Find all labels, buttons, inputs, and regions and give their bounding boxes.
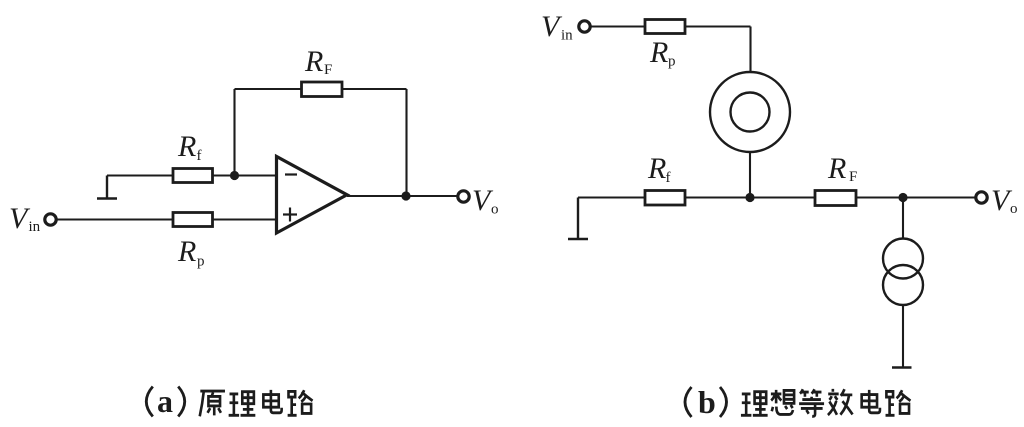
ground (b) bottom: [892, 366, 912, 368]
svg-text:R: R: [177, 235, 196, 268]
svg-text:p: p: [197, 254, 205, 270]
wire Vin to Rp: [58, 218, 174, 220]
paren (: [146, 387, 153, 417]
svg-text:R: R: [177, 130, 196, 163]
wire ground to Rf (b): [578, 196, 645, 198]
resistor Rp (a): [173, 213, 213, 227]
label Vin (b): [541, 10, 573, 44]
resistor Rf (b): [645, 191, 685, 206]
wire Vin to Rp (b): [592, 25, 646, 27]
glyph 路: [886, 390, 911, 415]
svg-text:F: F: [849, 169, 857, 185]
svg-text:in: in: [561, 28, 573, 44]
wire Rp to op-amp noninverting input: [213, 218, 277, 220]
label Rp (b): [649, 36, 676, 70]
ground (b) left: [568, 198, 588, 240]
svg-text:p: p: [668, 54, 676, 70]
nullator (ideal op-amp input element): [710, 72, 790, 152]
label Rp (a): [177, 235, 205, 270]
paren (: [685, 387, 692, 417]
label Vo (b): [991, 184, 1018, 217]
paren ): [178, 387, 185, 417]
wire Rf to inverting node: [213, 174, 277, 176]
glyph 效: [828, 389, 853, 415]
wire RF to Vo terminal (b): [856, 196, 975, 198]
wire corner down to nullator: [749, 27, 751, 73]
svg-text:R: R: [649, 36, 668, 69]
svg-text:f: f: [666, 170, 671, 186]
svg-text:f: f: [197, 148, 202, 164]
label Rf (a): [177, 130, 202, 164]
terminal Vin (a): [45, 214, 56, 225]
paren ): [720, 387, 727, 417]
svg-text:F: F: [324, 62, 332, 78]
wire ground to Rf: [107, 174, 173, 176]
label Vo (a): [472, 184, 499, 218]
label Rf (b): [647, 152, 671, 186]
ground (a): [97, 176, 117, 199]
wire feedback right vertical: [405, 89, 407, 196]
glyph 理: [229, 392, 256, 416]
svg-text:R: R: [827, 152, 846, 185]
node A junction dot (inverting input): [230, 171, 239, 180]
wire nullator to center node: [749, 152, 751, 198]
wire node to norator: [902, 198, 904, 239]
resistor Rf (a): [173, 169, 213, 183]
resistor RF (b): [815, 191, 856, 206]
terminal Vo (b): [976, 192, 987, 203]
svg-text:b: b: [698, 384, 716, 420]
wire norator to ground (b): [902, 305, 904, 367]
resistor RF (a): [302, 82, 343, 97]
terminal Vin (b): [579, 21, 590, 32]
glyph 等: [799, 389, 824, 416]
label RF (b): [827, 152, 857, 185]
glyph 路: [288, 390, 313, 415]
wire feedback left vertical: [233, 89, 235, 176]
glyph 原: [200, 391, 225, 416]
wire feedback top left: [235, 88, 302, 90]
glyph 想: [771, 390, 794, 415]
wire feedback top right: [342, 88, 407, 90]
label Vin (a): [9, 202, 41, 235]
wire op-amp output: [347, 195, 458, 197]
svg-text:R: R: [647, 152, 666, 185]
node D junction dot (output b): [898, 193, 907, 202]
svg-text:a: a: [157, 383, 173, 419]
op-amp U1: [277, 157, 348, 234]
norator (ideal op-amp output element): [883, 239, 923, 306]
wire Rp to corner (b): [685, 25, 751, 27]
glyph 电: [862, 390, 880, 413]
svg-text:in: in: [29, 219, 41, 235]
svg-text:o: o: [1010, 201, 1018, 217]
resistor Rp (b): [645, 20, 685, 34]
svg-text:R: R: [304, 45, 323, 78]
glyph 电: [263, 390, 281, 413]
node C junction dot (center): [745, 193, 754, 202]
label RF (a): [304, 45, 332, 78]
terminal Vo (a): [458, 191, 469, 202]
caption (b) 理想等效电路: [685, 384, 910, 420]
caption (a) 原理电路: [146, 383, 312, 419]
wire Rf to center node: [685, 196, 815, 198]
glyph 理: [741, 392, 768, 416]
svg-text:o: o: [491, 202, 499, 218]
node B junction dot (output): [401, 191, 410, 200]
